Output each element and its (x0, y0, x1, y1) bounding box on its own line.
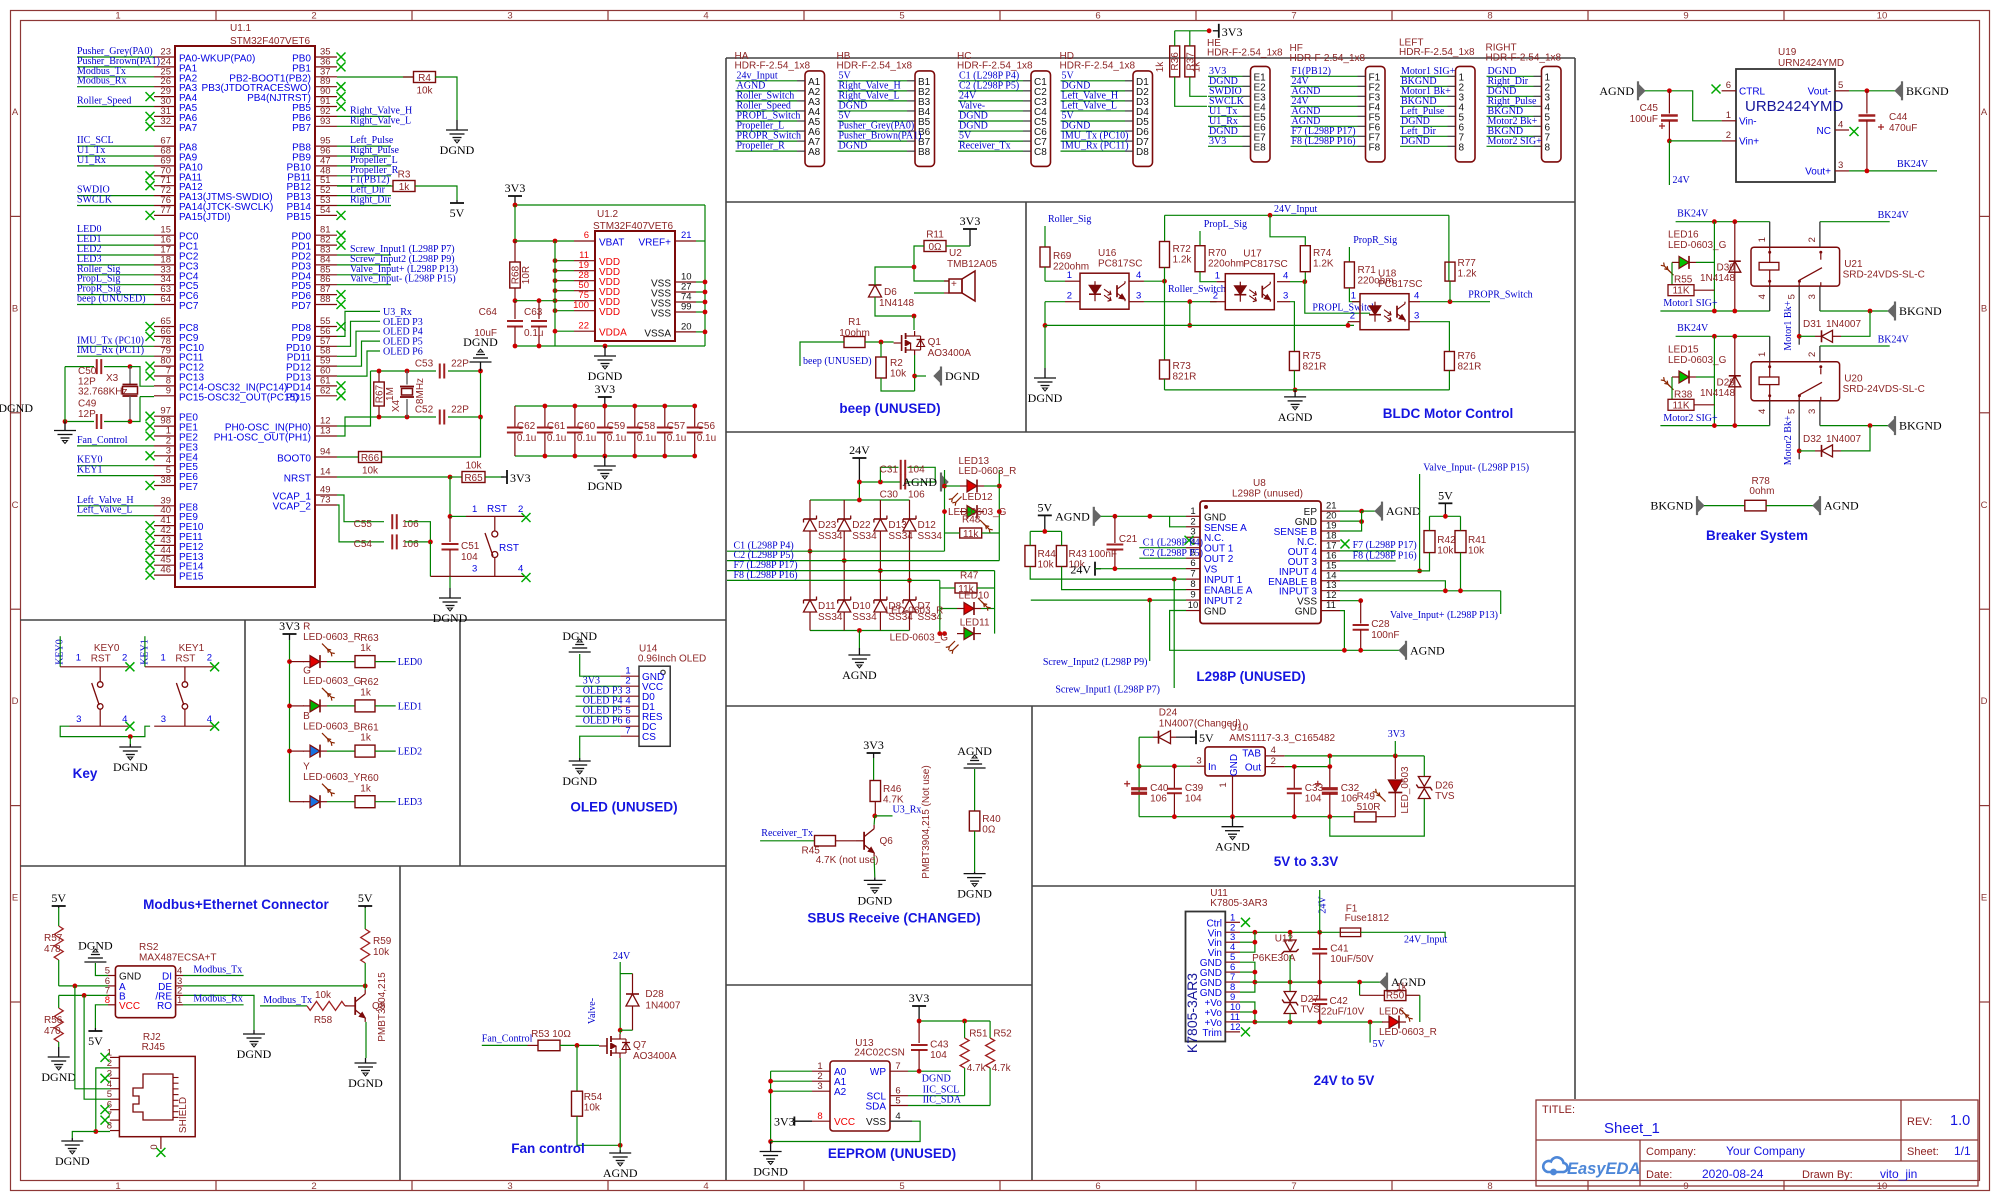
svg-text:U2: U2 (949, 248, 962, 259)
net Right_Valve_H (838, 90, 908, 92)
pin C1 net C1 (L298P P4) (1023, 80, 1031, 82)
wire (1348, 247, 1350, 262)
svg-text:LED1: LED1 (398, 701, 422, 712)
wire (183, 995, 254, 1030)
svg-text:R65: R65 (464, 473, 483, 484)
svg-text:F7 (L298P P17): F7 (L298P P17) (1353, 540, 1417, 551)
svg-text:8: 8 (1487, 11, 1492, 22)
wire (555, 280, 574, 282)
power 5V (364, 906, 366, 908)
pin C3 net 24V (1023, 100, 1031, 102)
svg-text:1.0: 1.0 (1950, 1113, 1970, 1129)
pin 14 ENABLE B (1321, 580, 1340, 582)
wire (1029, 531, 1031, 545)
node junction (1342, 648, 1347, 653)
node junction (703, 300, 708, 305)
svg-text:R61: R61 (360, 722, 379, 733)
svg-text:HDR-F-2.54_1x8: HDR-F-2.54_1x8 (1207, 48, 1283, 59)
pin C8 net Receiver_Tx (1023, 150, 1031, 152)
node junction (1327, 764, 1332, 769)
node junction (287, 749, 292, 754)
svg-text:PD7: PD7 (292, 301, 312, 312)
svg-text:HDR-F-2.54_1x8: HDR-F-2.54_1x8 (1399, 47, 1475, 58)
pin 17 PC2 (154, 254, 175, 256)
power 3V3 (1218, 24, 1220, 38)
wire (1144, 280, 1165, 282)
svg-text:2: 2 (311, 1181, 316, 1192)
wire (95, 1005, 108, 1028)
svg-text:10k: 10k (416, 86, 433, 97)
svg-text:AGND: AGND (842, 668, 877, 682)
pin 8 VCC (108, 1004, 115, 1006)
svg-text:C2 (L298P P5): C2 (L298P P5) (1143, 548, 1203, 559)
wire (1668, 141, 1670, 185)
svg-text:AGND: AGND (1824, 499, 1859, 513)
wire (1289, 982, 1291, 991)
pin F6 net AGND (1358, 125, 1366, 127)
wire (1240, 1002, 1255, 1022)
svg-text:DGND: DGND (78, 938, 113, 952)
svg-text:AMS1117-3.3_C165482: AMS1117-3.3_C165482 (1229, 733, 1335, 744)
pin 49 VCAP_1 (315, 494, 337, 496)
wire (875, 297, 914, 316)
ground flag BKGND (1697, 499, 1704, 513)
svg-text:5V: 5V (1037, 500, 1052, 514)
diode D29 1N4148 (1734, 336, 1736, 425)
net KEY0 (77, 465, 154, 467)
svg-text:C59: C59 (607, 421, 626, 432)
svg-text:1N4148: 1N4148 (1700, 273, 1735, 284)
wire (337, 371, 371, 426)
svg-text:VS: VS (1204, 565, 1218, 576)
wire (1030, 567, 1186, 580)
svg-text:LED3: LED3 (398, 797, 422, 808)
svg-text:EEPROM (UNUSED): EEPROM (UNUSED) (828, 1146, 956, 1161)
wire (104, 366, 130, 368)
net DGND (1487, 95, 1534, 97)
svg-text:21: 21 (681, 230, 692, 241)
svg-text:U1.1: U1.1 (230, 23, 252, 34)
svg-text:IMU_Rx (PC11): IMU_Rx (PC11) (1062, 141, 1129, 152)
pin 95 PB8 (315, 145, 337, 147)
wire (914, 355, 916, 391)
svg-text:3: 3 (1414, 311, 1419, 322)
pin C7 net 5V (1023, 140, 1031, 142)
wire (435, 77, 457, 120)
ground AGND (848, 648, 870, 668)
svg-text:10k: 10k (465, 461, 482, 472)
wire (881, 378, 915, 391)
svg-text:D: D (12, 696, 19, 707)
svg-text:N.C.: N.C. (1204, 533, 1224, 544)
wire (1660, 310, 1769, 312)
wire bottom rail (515, 455, 695, 457)
wire (1240, 962, 1255, 992)
transistor Q6 (863, 832, 865, 850)
capacitor C32 106 (1329, 767, 1331, 789)
wire (337, 311, 380, 336)
svg-text:4: 4 (703, 1181, 708, 1192)
svg-text:D: D (1981, 696, 1988, 707)
net OLED P3 (576, 695, 621, 697)
diode D6 1N4148 (869, 285, 882, 297)
node junction (632, 454, 637, 459)
svg-text:VSSA: VSSA (644, 328, 671, 339)
svg-text:U17: U17 (1243, 249, 1262, 260)
resistor (959, 532, 961, 534)
net 24V (958, 100, 1023, 102)
node junction (1293, 388, 1298, 393)
pin 40 PE9 (154, 515, 175, 517)
svg-text:24V to 5V: 24V to 5V (1314, 1073, 1375, 1088)
svg-text:5: 5 (1787, 294, 1798, 299)
node junction (1359, 519, 1364, 524)
svg-text:Modbus_Tx: Modbus_Tx (263, 995, 312, 1006)
pin 3 D0 (620, 695, 639, 697)
svg-text:RST: RST (487, 504, 507, 515)
node junction (1443, 514, 1448, 519)
svg-text:5: 5 (1838, 80, 1843, 91)
wire (1340, 581, 1445, 591)
svg-text:1.2K: 1.2K (1313, 259, 1334, 270)
wire (1369, 1022, 1371, 1043)
net DGND (838, 150, 908, 152)
svg-text:2: 2 (207, 653, 212, 664)
node junction (1358, 648, 1363, 653)
svg-text:GND: GND (1229, 754, 1240, 776)
svg-text:REV:: REV: (1907, 1116, 1932, 1128)
node junction (1712, 219, 1717, 224)
svg-text:2: 2 (1807, 352, 1818, 357)
pin 18 N.C. (1321, 540, 1340, 542)
net U1_Tx (77, 155, 154, 157)
net DGND (838, 110, 908, 112)
node junction (553, 268, 558, 273)
node junction (1732, 219, 1737, 224)
net Receiver_Tx (958, 150, 1023, 152)
pin 5 net BKGND (1534, 115, 1542, 117)
wire (1293, 371, 1295, 390)
pin 82 PD1 (315, 244, 337, 246)
wire (337, 321, 380, 346)
wire (875, 267, 914, 285)
svg-text:Right_Valve_L: Right_Valve_L (350, 115, 411, 126)
diode D30 1N4148 (1734, 222, 1736, 311)
pin 94 BOOT0 (315, 456, 337, 458)
node junction (1732, 309, 1737, 314)
resistor R2 (876, 357, 887, 378)
pin F3 net AGND (1358, 95, 1366, 97)
svg-text:3: 3 (1807, 294, 1818, 299)
pin 50 VDD (574, 290, 595, 292)
node junction (553, 329, 558, 334)
pin 23 PA0-WKUP(PA0) (154, 56, 175, 58)
capacitor C32 (1322, 787, 1338, 790)
wire (371, 370, 437, 372)
svg-text:TVS: TVS (1301, 1004, 1321, 1015)
capacitor C64 (514, 301, 516, 319)
svg-text:10k: 10k (890, 369, 907, 380)
svg-text:R40: R40 (982, 814, 1001, 825)
net DGND (958, 120, 1023, 122)
svg-text:106: 106 (1341, 794, 1358, 805)
pin 6 A (108, 985, 115, 987)
net BKGND (1487, 135, 1534, 137)
svg-text:vito_jin: vito_jin (1880, 1167, 1917, 1181)
svg-text:100: 100 (573, 300, 589, 311)
wire (449, 477, 451, 516)
svg-text:94: 94 (320, 447, 331, 458)
node junction (363, 984, 368, 989)
svg-text:4.7K (not use): 4.7K (not use) (816, 855, 879, 866)
pin 59 PD12 (315, 365, 337, 367)
svg-text:3V3: 3V3 (279, 619, 300, 633)
node junction (1732, 423, 1737, 428)
pin 87 PD6 (315, 294, 337, 296)
pin 15 INPUT 4 (1321, 570, 1340, 572)
wire (977, 587, 995, 589)
wire (515, 300, 555, 302)
node junction (573, 404, 578, 409)
power 3V3 (289, 634, 291, 640)
svg-text:VSS: VSS (651, 309, 671, 320)
svg-text:10k: 10k (362, 466, 379, 477)
ground DGND (84, 949, 106, 962)
pin 3 PE4 (154, 455, 175, 457)
svg-text:C: C (1981, 500, 1988, 511)
svg-text:AGND: AGND (1386, 504, 1421, 518)
capacitor C40 (1131, 787, 1147, 790)
net DGND (1400, 145, 1448, 147)
wire (1139, 736, 1153, 738)
wire (1320, 931, 1341, 933)
capacitor C33 104 (1293, 767, 1295, 789)
svg-text:9: 9 (1683, 11, 1688, 22)
pin 6 (110, 1109, 119, 1111)
pin 11 GND (1321, 610, 1340, 612)
svg-text:0.1u: 0.1u (577, 433, 596, 444)
net C2 (L298P P5) (958, 90, 1023, 92)
svg-text:A8: A8 (808, 147, 821, 158)
svg-text:C60: C60 (577, 421, 596, 432)
wire (1138, 737, 1140, 817)
wire (1255, 981, 1380, 983)
resistor R67 (374, 382, 385, 406)
wire (1361, 932, 1445, 938)
net Modbus_Tx (77, 76, 154, 78)
wire (696, 331, 705, 333)
pin 1 A0 (812, 1070, 830, 1072)
pin 4 PE5 (154, 465, 175, 467)
diode D12 SS34 (909, 500, 911, 519)
node junction (1357, 980, 1362, 985)
wire (865, 341, 894, 343)
resistor R40 0Ω (974, 769, 976, 811)
svg-text:10k: 10k (1038, 560, 1055, 571)
pin D2 net DGND (1125, 90, 1133, 92)
pin 3 A2 (812, 1090, 830, 1092)
svg-text:AGND: AGND (1599, 84, 1634, 98)
svg-text:11k: 11k (963, 529, 979, 540)
capacitor C44 470uF (1866, 91, 1868, 114)
pin 15 PC0 (154, 234, 175, 236)
svg-text:1: 1 (177, 995, 182, 1006)
svg-text:Fan control: Fan control (511, 1141, 585, 1156)
capacitor C51 (449, 516, 451, 542)
wire (1429, 553, 1431, 571)
pin 7 CS (620, 735, 639, 737)
svg-text:99: 99 (681, 302, 692, 313)
svg-text:DGND: DGND (857, 893, 892, 907)
svg-text:8: 8 (1190, 579, 1195, 590)
net F1(PB12) (337, 185, 391, 187)
node junction (662, 404, 667, 409)
wire (1460, 516, 1462, 530)
svg-text:Motor2 Bk+: Motor2 Bk+ (1783, 415, 1794, 465)
wire (65, 366, 94, 368)
net Motor2 SIG+ (1487, 145, 1534, 147)
node junction (1253, 970, 1258, 975)
svg-text:R4: R4 (418, 73, 431, 84)
pin 73 VCAP_2 (315, 504, 337, 506)
wire (907, 467, 935, 482)
net DGND (1208, 135, 1243, 137)
wire (1841, 311, 1870, 336)
net Propeller_L (736, 130, 798, 132)
node junction (1043, 323, 1048, 328)
power 3V3 (969, 229, 971, 246)
svg-text:E: E (12, 893, 18, 904)
capacitor C42 22uF/10V (1319, 982, 1321, 999)
shield pin (160, 1137, 162, 1149)
resistor R58 (307, 1001, 345, 1010)
pin 14 NRST (315, 476, 337, 478)
ground DGND (439, 588, 461, 611)
svg-text:Fan_Control: Fan_Control (77, 435, 128, 446)
pin 61 PD14 (315, 385, 337, 387)
wire (771, 1121, 921, 1141)
svg-text:3V3: 3V3 (510, 471, 531, 485)
resistor R56 (54, 1008, 63, 1042)
wire (939, 580, 941, 633)
pin D1 net 5V (1125, 80, 1133, 82)
svg-text:DGND: DGND (957, 887, 992, 901)
wire (908, 1070, 951, 1072)
pin F8 net F8 (L298P P16) (1358, 145, 1366, 147)
svg-text:3V3: 3V3 (863, 738, 884, 752)
wire (1170, 516, 1186, 527)
svg-text:P6KE30A: P6KE30A (1252, 953, 1296, 964)
pin 2 A1 (812, 1080, 830, 1082)
svg-text:U3_Rx: U3_Rx (893, 804, 922, 815)
wire (1340, 570, 1430, 572)
net Left_Pulse (1400, 115, 1448, 117)
wire (1362, 510, 1375, 512)
node junction (1712, 309, 1717, 314)
wire (945, 532, 960, 534)
svg-text:C31: C31 (880, 465, 899, 476)
svg-text:PD15: PD15 (286, 392, 311, 403)
pin B8 net DGND (907, 150, 915, 152)
node junction (1288, 930, 1293, 935)
wire (1340, 511, 1362, 531)
net F8 (L298P P16) (727, 579, 940, 581)
svg-text:220ohm: 220ohm (1208, 259, 1244, 270)
net LED1 (375, 705, 396, 707)
power 5V (58, 906, 60, 908)
pin 4 net Right_Pulse (1534, 105, 1542, 107)
pin 19 SENSE B (1321, 530, 1340, 532)
svg-text:D12: D12 (918, 520, 937, 531)
wire (580, 736, 621, 758)
svg-text:SDA: SDA (865, 1102, 886, 1113)
pin 83 PD2 (315, 254, 337, 256)
resistor R72 (1160, 242, 1170, 268)
node junction (1137, 764, 1142, 769)
svg-text:104: 104 (1185, 794, 1202, 805)
pin 37 PB2-BOOT1(PB2) (315, 76, 337, 78)
node junction (63, 419, 68, 424)
svg-text:C57: C57 (667, 421, 686, 432)
svg-text:Screw_Input1 (L298P P7): Screw_Input1 (L298P P7) (1055, 685, 1160, 696)
pin A3 net Roller_Switch (797, 100, 805, 102)
node junction (602, 454, 607, 459)
pin 5 GND (1225, 961, 1240, 963)
svg-text:0Ω: 0Ω (928, 242, 942, 253)
svg-text:12P: 12P (78, 409, 96, 420)
pin B3 net Right_Valve_L (907, 100, 915, 102)
ground DGND (964, 872, 986, 887)
diode D22 SS34 (843, 500, 845, 519)
wire (1820, 310, 1888, 312)
wire (1045, 280, 1065, 282)
net PropR_Sig (77, 294, 154, 296)
net OLED P5 (576, 715, 621, 717)
pin 9 PC15-OSC32_OUT(PC15) (154, 395, 175, 397)
wire (1460, 553, 1462, 591)
svg-text:0.1u: 0.1u (637, 433, 656, 444)
net Right_Valve_L (838, 100, 908, 102)
svg-text:5V: 5V (88, 1034, 103, 1048)
node junction (553, 239, 558, 244)
pin 74 VSS (675, 301, 696, 303)
svg-text:3: 3 (76, 714, 81, 725)
pin B1 net 5V (907, 80, 915, 82)
pin 10 +Vo (1225, 1011, 1240, 1013)
svg-text:SENSE A: SENSE A (1204, 523, 1247, 534)
wire (1062, 567, 1186, 590)
svg-text:AGND: AGND (1410, 643, 1445, 657)
svg-text:VDDA: VDDA (599, 328, 627, 339)
pin 36 PB1 (315, 66, 337, 68)
svg-text:10uF/50V: 10uF/50V (1330, 954, 1374, 965)
svg-text:DGND: DGND (348, 1076, 383, 1090)
svg-text:LED-0603_G: LED-0603_G (1668, 240, 1727, 251)
TVS D26 (1418, 777, 1430, 787)
wire (875, 815, 893, 817)
net Roller_Sig (77, 274, 154, 276)
svg-text:DGND: DGND (587, 479, 622, 493)
wire LED cathode rail (1045, 324, 1354, 326)
svg-text:Sheet_1: Sheet_1 (1604, 1120, 1660, 1137)
wire (576, 1045, 578, 1091)
ground AGND (1284, 390, 1306, 410)
svg-text:LED-0603_G: LED-0603_G (890, 632, 949, 643)
pin 2 net BKGND (1448, 85, 1456, 87)
resistor (986, 1038, 995, 1068)
net C1 (L298P P4) (727, 550, 945, 552)
wire (1696, 376, 1714, 378)
